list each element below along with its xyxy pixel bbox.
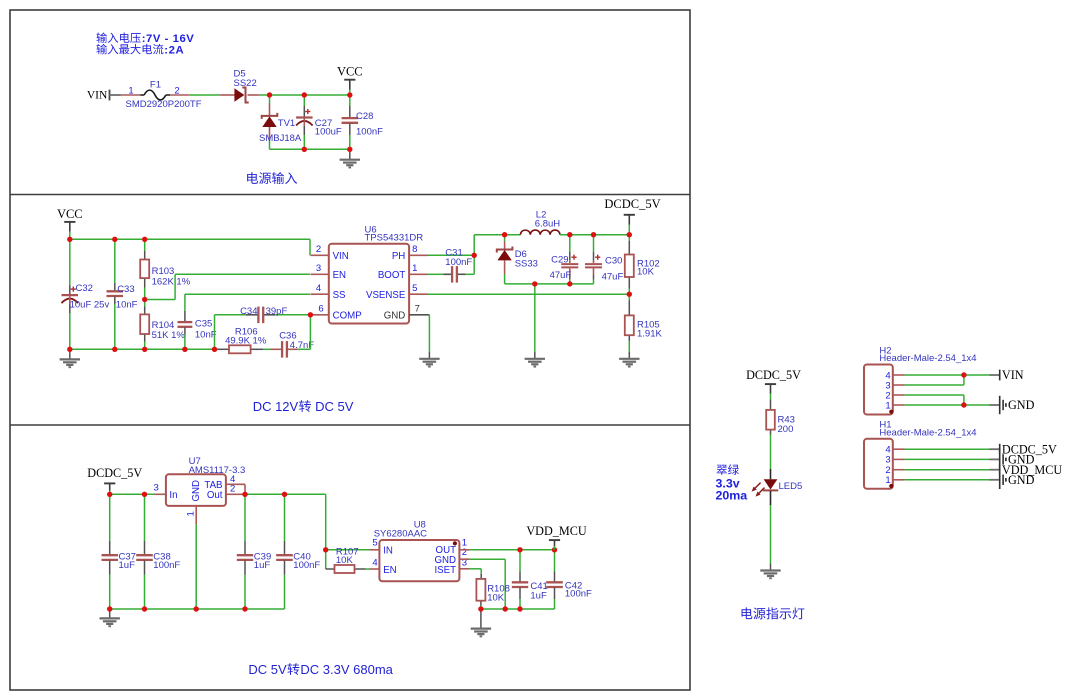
svg-text:VIN: VIN xyxy=(333,251,349,262)
svg-text:DC 12V: DC 12V xyxy=(253,399,299,414)
svg-text:LED5: LED5 xyxy=(779,481,803,492)
svg-text::2A: :2A xyxy=(164,44,184,56)
svg-text:SY6280AAC: SY6280AAC xyxy=(374,528,427,539)
svg-text:1: 1 xyxy=(185,511,196,516)
svg-text:In: In xyxy=(169,490,177,501)
svg-text:1.91K: 1.91K xyxy=(637,328,662,339)
svg-text:10nF: 10nF xyxy=(116,300,138,311)
svg-text:51K 1%: 51K 1% xyxy=(152,330,186,341)
svg-text:8: 8 xyxy=(412,244,417,255)
svg-text:2: 2 xyxy=(174,85,179,96)
svg-text:DCDC_5V: DCDC_5V xyxy=(604,197,660,211)
svg-text:TV1: TV1 xyxy=(278,118,295,129)
svg-text:SS22: SS22 xyxy=(234,78,257,89)
svg-text:IN: IN xyxy=(383,545,393,556)
svg-text:47uF: 47uF xyxy=(602,271,624,282)
svg-text:100nF: 100nF xyxy=(356,127,383,138)
svg-text:VDD_MCU: VDD_MCU xyxy=(526,524,586,538)
svg-text:162K 1%: 162K 1% xyxy=(152,277,191,288)
svg-text::7V - 16V: :7V - 16V xyxy=(142,33,195,45)
svg-text:GND: GND xyxy=(1008,398,1035,412)
svg-text:5: 5 xyxy=(372,537,377,548)
svg-text:C29: C29 xyxy=(551,255,568,266)
svg-text:10K: 10K xyxy=(336,555,354,566)
svg-text:VCC: VCC xyxy=(337,65,363,79)
svg-text:100uF: 100uF xyxy=(315,127,342,138)
svg-text:C32: C32 xyxy=(76,283,93,294)
svg-text:AMS1117-3.3: AMS1117-3.3 xyxy=(189,465,246,476)
svg-text:10nF: 10nF xyxy=(195,330,217,341)
svg-text:COMP: COMP xyxy=(333,311,362,322)
svg-text:2: 2 xyxy=(316,244,321,255)
svg-text:TPS54331DR: TPS54331DR xyxy=(365,233,424,244)
svg-text:SS33: SS33 xyxy=(515,259,538,270)
svg-text:SS: SS xyxy=(333,290,346,301)
svg-text:DC 3.3V 680ma: DC 3.3V 680ma xyxy=(300,662,393,677)
svg-text:10K: 10K xyxy=(487,592,505,603)
svg-text:ISET: ISET xyxy=(434,565,456,576)
svg-text:VIN: VIN xyxy=(87,90,108,102)
svg-text:R104: R104 xyxy=(152,320,175,331)
svg-text:Out: Out xyxy=(207,490,223,501)
svg-text:Header-Male-2.54_1x4: Header-Male-2.54_1x4 xyxy=(879,353,976,364)
svg-text:4: 4 xyxy=(372,557,377,568)
svg-text:VSENSE: VSENSE xyxy=(366,290,406,301)
svg-text:47uF: 47uF xyxy=(550,270,572,281)
svg-text:1: 1 xyxy=(885,475,890,486)
svg-text:VIN: VIN xyxy=(1002,368,1024,382)
svg-text:1uF: 1uF xyxy=(530,590,547,601)
svg-text:EN: EN xyxy=(333,270,346,281)
svg-text:4: 4 xyxy=(316,283,321,294)
svg-text:10uF 25v: 10uF 25v xyxy=(70,300,110,311)
svg-text:GND: GND xyxy=(384,311,406,322)
svg-text:1: 1 xyxy=(412,263,417,274)
svg-text:C28: C28 xyxy=(356,111,373,122)
svg-text:49.9K 1%: 49.9K 1% xyxy=(225,336,267,347)
svg-text:200: 200 xyxy=(778,424,794,435)
svg-text:SMD2920P200TF: SMD2920P200TF xyxy=(126,99,202,110)
svg-text:DCDC_5V: DCDC_5V xyxy=(87,466,142,480)
svg-text:DCDC_5V: DCDC_5V xyxy=(746,368,801,382)
svg-text:100nF: 100nF xyxy=(293,560,320,571)
svg-text:3: 3 xyxy=(154,483,159,494)
svg-text:SMBJ18A: SMBJ18A xyxy=(259,133,302,144)
svg-text:3: 3 xyxy=(316,263,321,274)
svg-text:7: 7 xyxy=(415,303,420,314)
svg-text:C34: C34 xyxy=(240,306,257,317)
svg-text:PH: PH xyxy=(392,251,405,262)
svg-text:100nF: 100nF xyxy=(445,257,472,268)
svg-text:20ma: 20ma xyxy=(716,489,748,503)
svg-text:GND: GND xyxy=(191,480,202,502)
svg-text:100nF: 100nF xyxy=(565,588,592,599)
svg-text:10K: 10K xyxy=(637,267,655,278)
svg-text:1uF: 1uF xyxy=(119,560,136,571)
svg-text:DC 5V: DC 5V xyxy=(248,662,287,677)
svg-text:GND: GND xyxy=(1008,473,1035,487)
svg-text:F1: F1 xyxy=(150,80,161,91)
svg-text:C35: C35 xyxy=(195,319,212,330)
svg-text:BOOT: BOOT xyxy=(378,270,406,281)
svg-text:1: 1 xyxy=(885,400,890,411)
svg-text:1: 1 xyxy=(128,85,133,96)
svg-text:EN: EN xyxy=(383,565,396,576)
svg-text:2: 2 xyxy=(230,484,235,495)
svg-text:C33: C33 xyxy=(117,284,134,295)
svg-text:1uF: 1uF xyxy=(254,560,271,571)
svg-text:C30: C30 xyxy=(605,255,622,266)
svg-text:5: 5 xyxy=(412,283,417,294)
svg-text:39pF: 39pF xyxy=(266,306,288,317)
svg-text:6.8uH: 6.8uH xyxy=(535,219,560,230)
svg-text:100nF: 100nF xyxy=(153,560,180,571)
svg-text:DC 5V: DC 5V xyxy=(315,399,354,414)
svg-text:6: 6 xyxy=(318,303,323,314)
svg-text:VCC: VCC xyxy=(57,207,83,221)
svg-text:Header-Male-2.54_1x4: Header-Male-2.54_1x4 xyxy=(879,427,976,438)
